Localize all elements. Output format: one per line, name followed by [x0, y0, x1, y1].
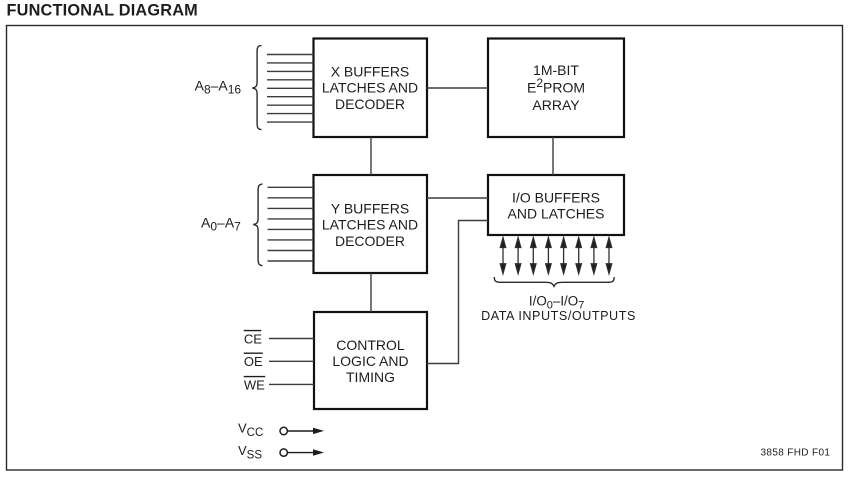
- svg-text:AND LATCHES: AND LATCHES: [508, 206, 605, 222]
- svg-text:DATA INPUTS/OUTPUTS: DATA INPUTS/OUTPUTS: [481, 309, 636, 323]
- wire OE input: [269, 360, 314, 362]
- wire Y buffers to I/O buffers: [427, 197, 488, 199]
- svg-text:I/O BUFFERS: I/O BUFFERS: [512, 189, 600, 205]
- underbrace for I/O bus: [494, 277, 614, 286]
- VSS terminal circle: [280, 449, 287, 456]
- label OE with overbar: [244, 353, 263, 369]
- block U4: I/O BUFFERS AND LATCHES: [488, 175, 624, 235]
- block U1: X BUFFERS LATCHES AND DECODER: [314, 39, 428, 138]
- wire CE input: [269, 338, 314, 340]
- address bus lines A8-A16 (9 input wires): [267, 55, 314, 123]
- block U5: CONTROL LOGIC AND TIMING: [314, 312, 427, 409]
- wire E2PROM array to I/O buffers: [552, 137, 554, 175]
- wire X buffers to Y buffers: [370, 137, 372, 175]
- svg-text:3858 FHD F01: 3858 FHD F01: [761, 448, 831, 459]
- brace for A8-A16: [252, 45, 261, 129]
- svg-text:LOGIC AND: LOGIC AND: [332, 353, 408, 369]
- svg-text:CE: CE: [244, 331, 262, 346]
- svg-text:Y BUFFERS: Y BUFFERS: [331, 200, 409, 216]
- brace for A0-A7: [253, 184, 262, 266]
- svg-text:FUNCTIONAL DIAGRAM: FUNCTIONAL DIAGRAM: [7, 2, 198, 20]
- label CE with overbar: [244, 331, 263, 347]
- svg-text:E2PROM: E2PROM: [527, 76, 585, 96]
- wire X buffers to E2PROM array: [427, 87, 488, 89]
- wire WE input: [269, 383, 314, 385]
- VSS wire with arrow: [288, 449, 324, 455]
- svg-text:DECODER: DECODER: [335, 233, 405, 249]
- svg-text:LATCHES AND: LATCHES AND: [322, 80, 418, 96]
- I/O data arrows (8 double-headed): [500, 238, 611, 274]
- wire Y buffers to control logic: [370, 273, 372, 312]
- svg-text:X BUFFERS: X BUFFERS: [331, 64, 410, 80]
- VCC terminal circle: [280, 427, 287, 434]
- svg-text:DECODER: DECODER: [335, 96, 405, 112]
- VCC wire with arrow: [288, 428, 324, 434]
- svg-text:OE: OE: [244, 354, 263, 369]
- block U2: 1M-BIT E2PROM ARRAY: [488, 39, 624, 138]
- label WE with overbar: [244, 377, 266, 393]
- address bus lines A0-A7 (8 input wires): [268, 187, 314, 261]
- svg-text:ARRAY: ARRAY: [532, 97, 580, 113]
- svg-text:WE: WE: [244, 377, 265, 392]
- svg-text:CONTROL: CONTROL: [336, 337, 405, 353]
- block U3: Y BUFFERS LATCHES AND DECODER: [314, 175, 428, 273]
- svg-text:LATCHES AND: LATCHES AND: [322, 216, 418, 232]
- wire control logic to I/O buffers: [427, 221, 488, 364]
- svg-text:TIMING: TIMING: [346, 369, 395, 385]
